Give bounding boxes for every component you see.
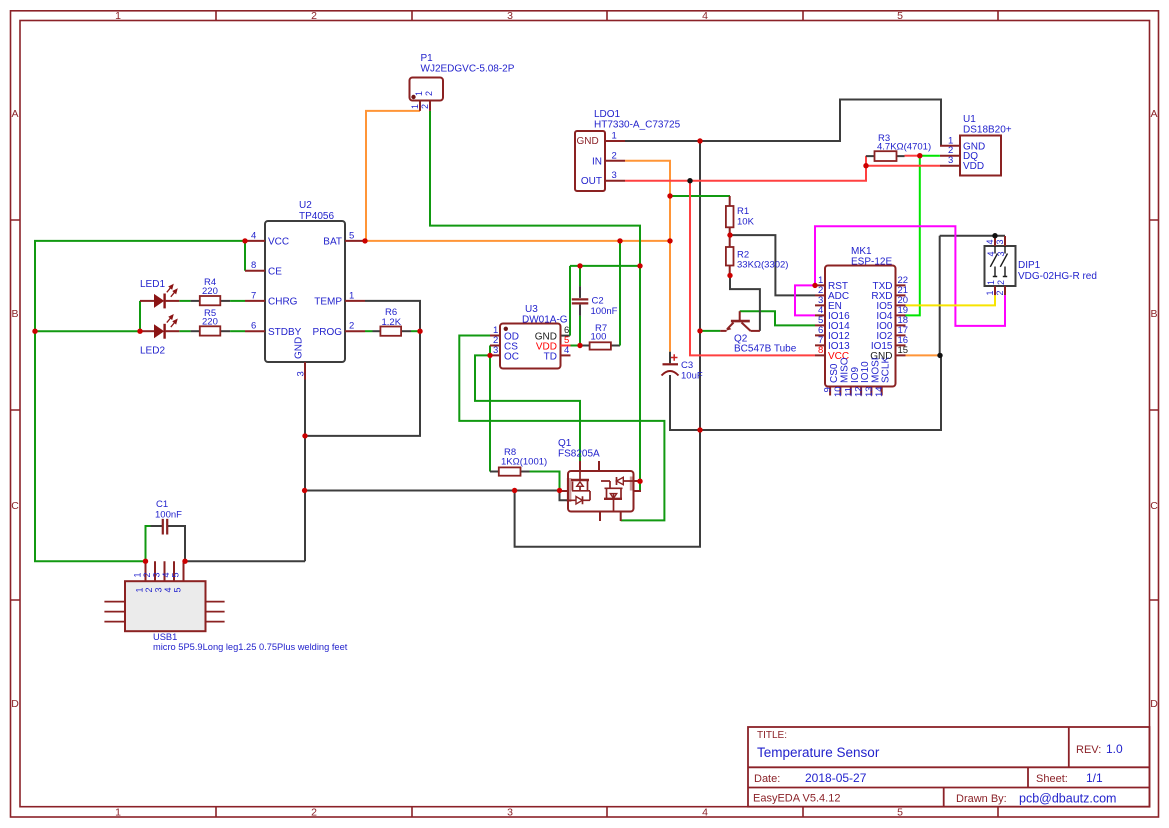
svg-text:VDG-02HG-R red: VDG-02HG-R red: [1018, 271, 1097, 282]
node BAT/R7 junction: [617, 238, 622, 243]
svg-text:2: 2: [420, 104, 430, 109]
resistor R7 100: [590, 323, 611, 350]
svg-text:6: 6: [251, 321, 256, 332]
svg-text:REV:: REV:: [1076, 744, 1101, 756]
svg-text:Sheet:: Sheet:: [1036, 773, 1068, 785]
svg-text:5: 5: [897, 10, 903, 22]
svg-text:OUT: OUT: [581, 176, 602, 187]
svg-text:MK1: MK1: [851, 246, 872, 257]
svg-text:2: 2: [996, 280, 1006, 285]
LED LED2: [140, 315, 179, 356]
wire R2 bottom to Q2 collector (black): [730, 276, 760, 331]
wire Q2 base to ESP IO14 (green): [740, 311, 815, 325]
svg-text:7: 7: [251, 290, 256, 301]
svg-text:GND: GND: [294, 337, 305, 359]
svg-text:ESP-12E: ESP-12E: [851, 257, 892, 268]
node LED1/LED2 junction: [137, 329, 142, 334]
svg-text:3: 3: [507, 807, 513, 819]
svg-text:4: 4: [251, 230, 256, 241]
wire OUT to DS18B20 VDD (red): [866, 165, 940, 167]
wire P1 pin1 (orange): [366, 111, 420, 241]
svg-text:4: 4: [986, 251, 996, 256]
sensor U1 DS18B20+: [940, 114, 1012, 176]
wire Q1 left pins loop (black): [560, 491, 569, 501]
svg-text:10: 10: [833, 386, 844, 397]
svg-text:1/1: 1/1: [1086, 771, 1103, 785]
capacitor C3 10uF (polarized): [662, 352, 703, 382]
wire C1 left lead riser (green): [146, 526, 151, 561]
svg-text:B: B: [11, 308, 18, 320]
svg-text:A: A: [1150, 108, 1157, 120]
wire R5 to STDBY (black+green): [220, 330, 230, 332]
LED LED1: [140, 279, 179, 308]
svg-text:1: 1: [985, 290, 995, 295]
svg-text:micro 5P5.9Long leg1.25 0.75Pl: micro 5P5.9Long leg1.25 0.75Plus welding…: [153, 642, 348, 652]
module MK1 ESP-12E: [815, 246, 908, 397]
svg-text:4: 4: [702, 807, 708, 819]
svg-text:1: 1: [349, 290, 354, 301]
wire LED1 cathode to R4 (green+black): [179, 300, 190, 302]
svg-text:1: 1: [612, 131, 617, 142]
svg-text:P1: P1: [421, 53, 434, 64]
svg-text:8: 8: [251, 260, 256, 271]
node VCC junction: [242, 238, 247, 243]
node BAT junction: [362, 238, 367, 243]
wire U2 GND drop (black): [304, 380, 306, 562]
wire LED2 anode feed (green): [35, 330, 140, 332]
svg-text:8: 8: [818, 345, 823, 356]
wire BAT rail to R1 (green): [670, 195, 730, 197]
svg-text:5: 5: [171, 572, 181, 577]
svg-text:TP4056: TP4056: [299, 211, 334, 222]
svg-text:3: 3: [507, 10, 513, 22]
svg-text:1.0: 1.0: [1106, 742, 1123, 756]
wire LED1 anode drop (green): [139, 301, 141, 331]
svg-text:GND: GND: [577, 136, 599, 147]
node C2 top junction: [577, 263, 582, 268]
svg-text:100: 100: [591, 332, 607, 343]
connector USB1 micro: [104, 561, 347, 652]
wire R7 leads (black): [580, 345, 590, 347]
svg-text:DS18B20+: DS18B20+: [963, 125, 1012, 136]
svg-text:VDD: VDD: [963, 161, 984, 172]
wire U3 VDD to junction (green): [571, 345, 580, 347]
svg-text:DIP1: DIP1: [1018, 260, 1041, 271]
node R6/TEMP junction: [417, 329, 422, 334]
svg-text:LED2: LED2: [140, 346, 165, 357]
svg-text:EasyEDA V5.4.12: EasyEDA V5.4.12: [753, 793, 840, 805]
svg-text:1: 1: [986, 280, 996, 285]
svg-text:3: 3: [612, 170, 617, 181]
svg-text:A: A: [11, 108, 18, 120]
wire P1 pin2 battery+ to Q1 (green): [430, 111, 640, 491]
svg-text:1: 1: [135, 587, 145, 592]
svg-text:33KΩ(3302): 33KΩ(3302): [737, 260, 788, 271]
svg-text:TD: TD: [544, 351, 557, 362]
wire GND rail left riser (black): [515, 141, 700, 547]
resistor R5 220: [200, 308, 221, 336]
resistor R4 220: [200, 277, 221, 305]
node green rail junction: [637, 263, 642, 268]
svg-text:HT7330-A_C73725: HT7330-A_C73725: [594, 120, 681, 131]
switch DIP1 VDG-02HG-R: [985, 236, 1097, 296]
svg-text:15: 15: [898, 345, 909, 356]
svg-text:100nF: 100nF: [155, 509, 182, 520]
svg-text:4: 4: [161, 572, 171, 577]
svg-text:220: 220: [202, 286, 218, 297]
svg-text:1KΩ(1001): 1KΩ(1001): [501, 457, 547, 468]
node R3/VDD junction: [863, 163, 868, 168]
wire LDO1 OUT rail (red): [625, 156, 866, 181]
svg-text:IN: IN: [592, 156, 602, 167]
wire PROG to R6 (green+black): [365, 330, 373, 332]
svg-text:3: 3: [152, 572, 162, 577]
svg-text:CHRG: CHRG: [268, 297, 298, 308]
svg-text:BC547B Tube: BC547B Tube: [734, 344, 797, 355]
wire U3 OD to Q1 bottom gate (green): [459, 336, 664, 521]
wire C3 bottom to GND rail (black): [670, 355, 941, 430]
wire R8 right to Q1 source (black+green): [521, 471, 530, 473]
node GND/USB riser junction: [302, 488, 307, 493]
node DIP1 pin4 junction (black): [992, 233, 997, 238]
wire U3 CS to R8 (green): [489, 346, 491, 472]
node OUT rail junction (black): [687, 178, 692, 183]
svg-text:4: 4: [702, 10, 708, 22]
svg-text:C3: C3: [681, 360, 693, 371]
svg-text:TEMP: TEMP: [314, 297, 342, 308]
wire U3 OC to Q1 top gate (green): [475, 355, 580, 461]
wire U3 GND pin riser (black+green): [561, 335, 571, 337]
svg-text:B: B: [1150, 308, 1157, 320]
resistor R6 1.2K: [380, 307, 401, 336]
node LDO1 GND junction: [697, 138, 702, 143]
svg-text:10uF: 10uF: [681, 371, 703, 382]
wire USB GND row (black): [185, 560, 305, 562]
wire GND rail to DIP1 (black): [939, 236, 941, 356]
svg-text:3: 3: [154, 587, 164, 592]
wire VCC to CE (green): [244, 241, 246, 271]
svg-text:Date:: Date:: [754, 773, 780, 785]
svg-text:1: 1: [133, 572, 143, 577]
wire ESP RST loop (magenta): [795, 285, 815, 315]
svg-text:LDO1: LDO1: [594, 109, 621, 120]
wire GND row to R8 row (black): [305, 490, 560, 492]
svg-text:3: 3: [296, 371, 307, 376]
connector P1 WJ2EDGVC-5.08-2P: [410, 53, 515, 111]
svg-text:U3: U3: [525, 304, 538, 315]
svg-text:1: 1: [414, 91, 424, 96]
svg-text:5: 5: [897, 807, 903, 819]
left body diode: [569, 491, 591, 504]
svg-text:TITLE:: TITLE:: [757, 730, 787, 741]
node U3 OC junction: [487, 353, 492, 358]
svg-text:VCC: VCC: [268, 237, 289, 248]
svg-text:STDBY: STDBY: [268, 327, 302, 338]
svg-text:SCLK: SCLK: [881, 357, 892, 383]
wire OUT to ESP VCC (red): [690, 181, 815, 356]
svg-text:DW01A-G: DW01A-G: [522, 315, 568, 326]
resistor R3 4.7K: [866, 133, 931, 161]
svg-text:WJ2EDGVC-5.08-2P: WJ2EDGVC-5.08-2P: [421, 64, 515, 75]
node GND rail riser junction: [512, 488, 517, 493]
resistor R2 33K: [726, 235, 789, 275]
svg-text:4: 4: [163, 587, 173, 592]
wire ESP IO5 to DIP1 pin1 (yellow): [906, 295, 996, 305]
left mosfet: [579, 471, 581, 480]
wire GND-C2 top rail (green): [570, 265, 640, 267]
svg-text:220: 220: [202, 317, 218, 328]
wire Q2 emitter tie (green): [700, 330, 720, 332]
svg-text:U1: U1: [963, 114, 976, 125]
svg-text:BAT: BAT: [323, 237, 342, 248]
svg-text:1: 1: [115, 10, 121, 22]
svg-text:1: 1: [410, 104, 420, 109]
node Q2 emitter junction: [697, 328, 702, 333]
svg-text:14: 14: [874, 386, 885, 397]
svg-text:2: 2: [424, 91, 434, 96]
svg-text:1.2K: 1.2K: [382, 317, 402, 328]
node ESP GND junction (black): [937, 353, 942, 358]
svg-text:USB1: USB1: [153, 632, 177, 642]
svg-text:2: 2: [612, 150, 617, 161]
svg-text:2: 2: [311, 10, 317, 22]
svg-text:1: 1: [115, 807, 121, 819]
svg-text:U2: U2: [299, 200, 312, 211]
node Q1 right pin junction: [637, 479, 642, 484]
wire TEMP net (black): [305, 301, 420, 436]
node Q1 left pin junction: [557, 488, 562, 493]
resistor R8 1K: [499, 447, 547, 476]
right mosfet: [609, 481, 611, 488]
wire C2 top lead (green+black): [579, 266, 581, 286]
wire C1 left lead (black): [151, 525, 163, 527]
node DQ junction: [917, 153, 922, 158]
svg-text:3: 3: [948, 155, 953, 166]
wire C1 right lead (black): [168, 526, 186, 561]
protection IC U3 DW01A-G: [490, 304, 571, 369]
transistor Q2 BC547B: [720, 311, 760, 331]
svg-text:pcb@dbautz.com: pcb@dbautz.com: [1019, 792, 1116, 806]
svg-text:C: C: [11, 500, 19, 512]
wire DS18B20 DQ to ESP IO4 (bright green): [906, 156, 940, 316]
node ESP RST junction: [812, 283, 817, 288]
svg-text:100nF: 100nF: [591, 306, 618, 317]
svg-text:FS8205A: FS8205A: [558, 449, 600, 460]
svg-text:Temperature Sensor: Temperature Sensor: [757, 745, 880, 760]
node C3/GND junction: [697, 427, 702, 432]
frame left ticks: [11, 220, 21, 600]
regulator LDO1 HT7330-A_C73725: [575, 109, 681, 191]
node TEMP/GND junction: [302, 433, 307, 438]
TITLE BLOCK: [748, 727, 1150, 807]
svg-text:3: 3: [995, 239, 1005, 244]
svg-text:3: 3: [493, 345, 498, 356]
wire LED2 cathode to R5 (green+black): [179, 330, 190, 332]
svg-text:MISO: MISO: [839, 357, 850, 383]
wire R1-R2 junction to ESP ADC (black): [730, 235, 815, 295]
svg-text:2: 2: [311, 807, 317, 819]
svg-text:PROG: PROG: [313, 327, 343, 338]
frame bottom ticks: [216, 807, 998, 817]
svg-text:10K: 10K: [737, 217, 755, 228]
frame right ticks: [1150, 220, 1159, 600]
svg-text:2: 2: [995, 290, 1005, 295]
capacitor C2 100nF: [572, 296, 618, 317]
resistor R1 10K: [726, 196, 755, 235]
svg-text:4.7KΩ(4701): 4.7KΩ(4701): [877, 142, 931, 153]
node LED rail left junction: [32, 329, 37, 334]
dual MOSFET Q1 FS8205A: [558, 438, 641, 521]
svg-text:C: C: [1150, 500, 1158, 512]
node R2/Q2 junction: [727, 273, 732, 278]
wire C2 bottom lead (black+green): [579, 305, 581, 316]
svg-text:5: 5: [173, 587, 183, 592]
wire R6 right to TEMP vertical (black+green): [401, 330, 411, 332]
svg-text:LED1: LED1: [140, 279, 165, 290]
node C3/R1 junction: [667, 193, 672, 198]
wire VCC net left loop (green): [35, 241, 245, 561]
wire R4 to CHRG (black+green): [220, 300, 230, 302]
svg-text:2018-05-27: 2018-05-27: [805, 771, 867, 785]
svg-text:4: 4: [985, 239, 995, 244]
svg-text:Drawn By:: Drawn By:: [956, 793, 1007, 805]
wire R8 left lead (black): [490, 471, 499, 473]
svg-text:D: D: [11, 698, 19, 710]
wire ESP GND to rail (orange): [906, 354, 941, 356]
wire BAT rail (orange): [365, 240, 670, 242]
wire LDO1 GND to DS18B20 GND (black): [625, 100, 941, 146]
wire R7 right riser to BAT rail (green): [619, 241, 621, 346]
node BAT/C3 junction: [667, 238, 672, 243]
svg-text:OC: OC: [504, 351, 519, 362]
svg-text:2: 2: [349, 321, 354, 332]
svg-text:2: 2: [142, 572, 152, 577]
svg-text:D: D: [1150, 698, 1158, 710]
svg-text:4: 4: [564, 345, 569, 356]
frame top ticks: [216, 11, 998, 21]
capacitor C1 100nF: [155, 499, 182, 535]
svg-text:3: 3: [996, 251, 1006, 256]
svg-text:2: 2: [144, 587, 154, 592]
node R1/R2 junction: [727, 232, 732, 237]
wire ESP RST to DIP1 pin2 (magenta): [815, 226, 1005, 326]
svg-text:VDD: VDD: [536, 341, 557, 352]
node C1/USB pin1 junction: [143, 559, 148, 564]
wire R3 right to DQ junction (red): [905, 155, 920, 157]
node C1/USB pin5 junction: [182, 559, 187, 564]
svg-text:Q1: Q1: [558, 438, 572, 449]
svg-text:5: 5: [349, 230, 354, 241]
charger U2 TP4056: [245, 200, 365, 380]
svg-text:CE: CE: [268, 266, 282, 277]
node VDD/C2 junction: [577, 343, 582, 348]
svg-text:R1: R1: [737, 206, 749, 217]
wire LDO1 IN feed (orange): [625, 161, 670, 352]
right body diode: [601, 477, 634, 485]
